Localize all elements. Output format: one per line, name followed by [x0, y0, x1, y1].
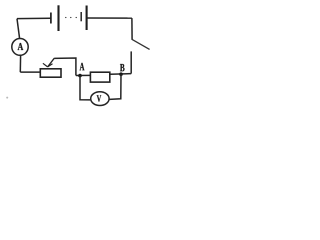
node A junction dot — [78, 74, 82, 78]
voltmeter label V — [97, 95, 101, 102]
rheostat slider arrowhead — [43, 63, 53, 67]
ammeter label A — [18, 43, 24, 50]
wire: left vertical from ammeter top up to top-left corner — [17, 19, 20, 39]
node B label — [120, 64, 124, 71]
battery B1 long plate (left cell positive) — [57, 5, 59, 31]
rheostat body rectangle — [40, 69, 61, 77]
ammeter circle — [12, 39, 28, 56]
wire: node B horizontal to resistor — [110, 73, 131, 76]
battery dots (more cells) — [65, 17, 66, 18]
scan speck — [6, 97, 8, 99]
wire: bottom-left horizontal from ammeter to rheostat — [20, 71, 40, 73]
wire: slider branch vertical up from node A wire — [54, 58, 76, 76]
switch S open blade — [132, 40, 149, 50]
wire: top-left horizontal from corner to battery — [17, 17, 51, 19]
resistor R rectangle — [90, 72, 109, 82]
wire: node A horizontal to resistor — [76, 74, 91, 76]
node B junction dot — [119, 72, 123, 76]
voltmeter circle — [91, 92, 109, 106]
background — [0, 0, 156, 112]
wire: switch lower contact vertical down to node B wire — [130, 51, 132, 73]
wire: left vertical from corner up to ammeter bottom — [19, 55, 21, 72]
battery B2 long plate (right cell positive) — [86, 6, 88, 31]
wire: voltmeter branch right horizontal and vertical up to node B — [110, 74, 122, 99]
wire: voltmeter branch left vertical down from node A — [80, 76, 90, 100]
rheostat slider arrow shaft — [48, 58, 55, 67]
wire: top-right horizontal from battery to switch corner — [87, 17, 132, 19]
wire: right vertical down to switch — [131, 18, 133, 40]
battery B2 short plate (right cell negative) — [80, 12, 82, 21]
battery B1 short plate (left cell negative) — [50, 13, 52, 24]
node A label — [80, 63, 85, 70]
